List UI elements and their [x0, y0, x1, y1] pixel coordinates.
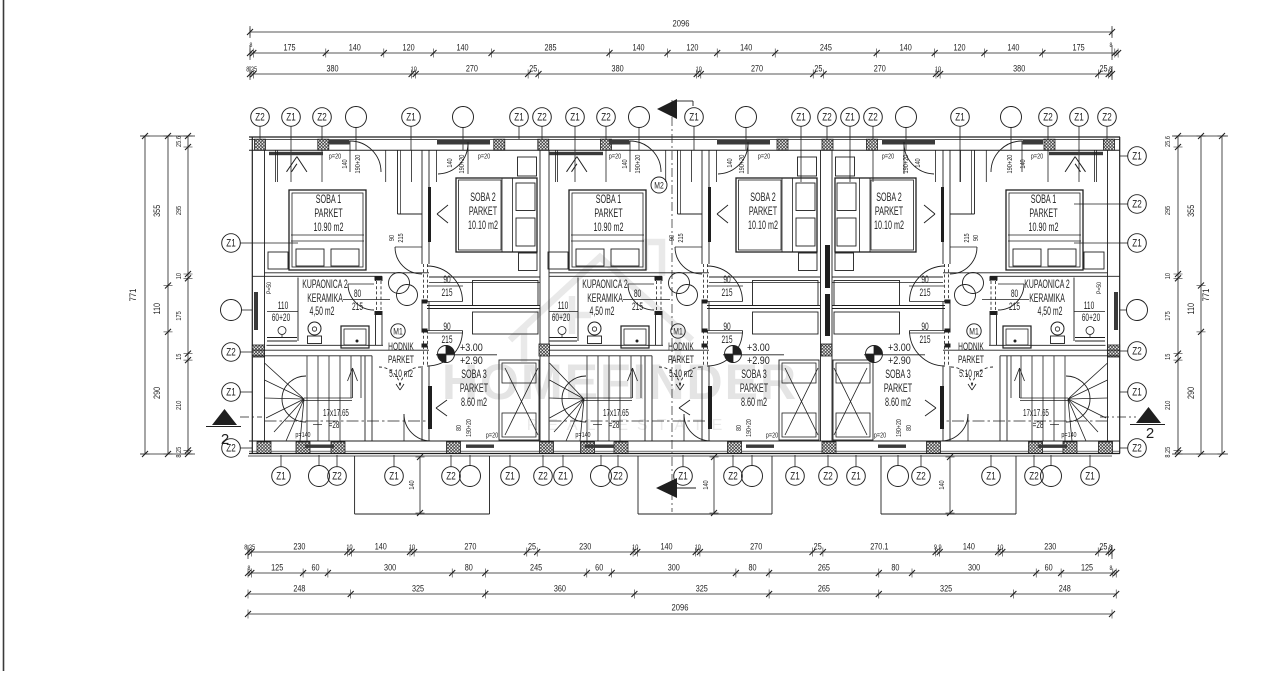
svg-text:215: 215 [352, 300, 363, 312]
svg-text:140: 140 [740, 42, 752, 53]
svg-text:p=140: p=140 [575, 431, 590, 439]
svg-text:+3.00: +3.00 [747, 342, 770, 354]
svg-text:265: 265 [818, 583, 830, 594]
svg-text:Z1: Z1 [1132, 238, 1141, 250]
svg-text:5.10 m2: 5.10 m2 [389, 367, 413, 379]
svg-text:140: 140 [456, 42, 468, 53]
svg-text:140: 140 [660, 541, 672, 552]
svg-text:190+20: 190+20 [354, 154, 362, 173]
svg-text:215: 215 [441, 333, 452, 345]
svg-text:PARKET: PARKET [875, 205, 903, 218]
svg-text:290: 290 [1185, 387, 1196, 399]
svg-text:175: 175 [1073, 42, 1085, 53]
svg-text:120: 120 [953, 42, 965, 53]
svg-text:KUPAONICA 2: KUPAONICA 2 [582, 278, 627, 291]
svg-text:Z1: Z1 [1074, 112, 1083, 124]
svg-text:15: 15 [175, 353, 183, 360]
svg-text:300: 300 [968, 562, 980, 573]
svg-text:PARKET: PARKET [668, 353, 694, 365]
svg-text:90: 90 [723, 273, 730, 285]
svg-text:110: 110 [151, 303, 162, 315]
svg-text:325: 325 [696, 583, 708, 594]
svg-text:Z2: Z2 [823, 471, 832, 483]
svg-text:110: 110 [558, 299, 569, 311]
svg-text:80: 80 [455, 425, 463, 431]
svg-text:PARKET: PARKET [884, 382, 912, 395]
svg-text:5.10 m2: 5.10 m2 [669, 367, 693, 379]
svg-text:360: 360 [554, 583, 566, 594]
svg-text:380: 380 [612, 63, 624, 74]
svg-text:Z2: Z2 [1132, 346, 1141, 358]
svg-text:10.10 m2: 10.10 m2 [468, 219, 498, 232]
svg-text:295: 295 [175, 205, 183, 215]
svg-text:+2.90: +2.90 [747, 355, 770, 367]
svg-text:215: 215 [721, 333, 732, 345]
svg-text:P=50: P=50 [266, 281, 273, 294]
svg-text:80: 80 [354, 287, 361, 299]
svg-text:80: 80 [735, 425, 743, 431]
svg-text:140: 140 [726, 158, 734, 168]
svg-text:120: 120 [403, 42, 415, 53]
svg-text:25.6: 25.6 [175, 136, 183, 147]
svg-text:SOBA 3: SOBA 3 [741, 368, 767, 381]
svg-text:9.9: 9.9 [934, 544, 942, 552]
svg-text:5.10 m2: 5.10 m2 [959, 367, 983, 379]
svg-text:10: 10 [409, 544, 416, 552]
svg-text:10: 10 [411, 66, 418, 74]
svg-text:90: 90 [443, 273, 450, 285]
svg-text:210: 210 [175, 400, 183, 410]
svg-text:325: 325 [940, 583, 952, 594]
svg-text:10: 10 [997, 544, 1004, 552]
svg-text:265: 265 [818, 562, 830, 573]
svg-text:8.25: 8.25 [246, 66, 257, 74]
svg-text:245: 245 [820, 42, 832, 53]
svg-text:60: 60 [311, 562, 319, 573]
svg-text:270: 270 [750, 541, 762, 552]
svg-text:8.25: 8.25 [244, 544, 255, 552]
svg-text:4,50 m2: 4,50 m2 [310, 305, 335, 318]
svg-text:Z2: Z2 [822, 112, 831, 124]
svg-text:2: 2 [1146, 425, 1154, 442]
svg-text:210: 210 [1164, 400, 1172, 410]
svg-text:10.90 m2: 10.90 m2 [1029, 221, 1059, 234]
svg-text:Z2: Z2 [538, 471, 547, 483]
svg-text:140: 140 [702, 480, 710, 490]
svg-text:120: 120 [686, 42, 698, 53]
svg-text:215: 215 [1009, 300, 1020, 312]
svg-text:80: 80 [634, 287, 641, 299]
svg-text:Z1: Z1 [986, 471, 995, 483]
svg-text:Z2: Z2 [446, 471, 455, 483]
svg-text:KUPAONICA 2: KUPAONICA 2 [302, 278, 347, 291]
svg-text:190+20: 190+20 [745, 419, 753, 437]
svg-text:175: 175 [175, 311, 183, 321]
svg-text:190+20: 190+20 [738, 154, 746, 173]
svg-text:Z2: Z2 [1043, 112, 1052, 124]
svg-text:248: 248 [293, 583, 305, 594]
svg-text:25: 25 [529, 63, 537, 74]
svg-text:125: 125 [271, 562, 283, 573]
svg-text:140: 140 [900, 42, 912, 53]
svg-text:Z2: Z2 [1132, 443, 1141, 455]
svg-text:285: 285 [544, 42, 556, 53]
svg-text:25.6: 25.6 [1164, 136, 1172, 147]
svg-text:190+20: 190+20 [634, 154, 642, 173]
svg-text:140: 140 [408, 480, 416, 490]
svg-text:270: 270 [464, 541, 476, 552]
svg-text:230: 230 [579, 541, 591, 552]
svg-text:140: 140 [446, 158, 454, 168]
svg-text:+3.00: +3.00 [888, 342, 911, 354]
svg-text:Z1: Z1 [678, 471, 687, 483]
svg-text:2: 2 [221, 431, 229, 448]
svg-text:SOBA 2: SOBA 2 [876, 191, 902, 204]
svg-text:2096: 2096 [673, 18, 690, 29]
svg-text:Z2: Z2 [1132, 199, 1141, 211]
svg-text:140: 140 [914, 158, 922, 168]
svg-text:90: 90 [921, 320, 928, 332]
svg-text:215: 215 [919, 333, 930, 345]
svg-text:Z1: Z1 [1132, 387, 1141, 399]
svg-text:PARKET: PARKET [594, 207, 622, 220]
svg-text:270: 270 [751, 63, 763, 74]
svg-text:SOBA 1: SOBA 1 [316, 193, 342, 206]
svg-text:P=50: P=50 [1096, 281, 1103, 294]
svg-text:Z2: Z2 [613, 471, 622, 483]
svg-text:SOBA 1: SOBA 1 [1031, 193, 1057, 206]
svg-text:25: 25 [814, 541, 822, 552]
svg-text:p=20: p=20 [609, 153, 621, 161]
svg-text:125: 125 [1081, 562, 1093, 573]
svg-text:PARKET: PARKET [1029, 207, 1057, 220]
svg-text:295: 295 [1164, 205, 1172, 215]
svg-text:190+20: 190+20 [895, 419, 903, 437]
svg-text:10.10 m2: 10.10 m2 [748, 219, 778, 232]
svg-text:140: 140 [341, 159, 349, 169]
svg-text:Z1: Z1 [1085, 471, 1094, 483]
svg-text:Z2: Z2 [332, 471, 341, 483]
svg-text:M1: M1 [393, 326, 403, 336]
svg-text:10: 10 [632, 544, 639, 552]
svg-text:p=20: p=20 [486, 432, 498, 440]
svg-text:8.25: 8.25 [1164, 446, 1172, 457]
svg-text:PARKET: PARKET [740, 382, 768, 395]
svg-text:Z1: Z1 [845, 112, 854, 124]
svg-text:270: 270 [874, 63, 886, 74]
svg-text:355: 355 [151, 204, 162, 216]
svg-text:2096: 2096 [672, 602, 689, 613]
svg-text:Z2: Z2 [537, 112, 546, 124]
svg-text:REAL ESTATE: REAL ESTATE [527, 417, 732, 434]
svg-text:17x17.65: 17x17.65 [1023, 406, 1049, 418]
svg-text:215: 215 [677, 233, 685, 243]
svg-text:Z1: Z1 [514, 112, 523, 124]
svg-text:90: 90 [388, 235, 396, 242]
svg-text:PARKET: PARKET [460, 382, 488, 395]
svg-text:300: 300 [668, 562, 680, 573]
svg-text:4,50 m2: 4,50 m2 [1038, 305, 1063, 318]
svg-text:8.60 m2: 8.60 m2 [461, 396, 487, 409]
svg-text:Z2: Z2 [255, 112, 264, 124]
svg-text:10.10 m2: 10.10 m2 [874, 219, 904, 232]
svg-text:p=20: p=20 [478, 153, 490, 161]
svg-text:80: 80 [891, 562, 899, 573]
svg-text:8.60 m2: 8.60 m2 [885, 396, 911, 409]
svg-text:270.1: 270.1 [870, 541, 888, 552]
svg-text:Z2: Z2 [728, 471, 737, 483]
svg-text:215: 215 [632, 300, 643, 312]
svg-text:8.60 m2: 8.60 m2 [741, 396, 767, 409]
svg-text:+3.00: +3.00 [460, 342, 483, 354]
svg-text:80: 80 [905, 425, 913, 431]
svg-text:PARKET: PARKET [958, 353, 984, 365]
svg-text:215: 215 [397, 233, 405, 243]
svg-text:KERAMIKA: KERAMIKA [587, 292, 623, 305]
svg-text:10: 10 [935, 66, 942, 74]
svg-text:190+20: 190+20 [458, 154, 466, 173]
svg-text:25: 25 [1099, 541, 1107, 552]
svg-text:60+20: 60+20 [272, 311, 291, 323]
svg-text:10: 10 [695, 544, 702, 552]
svg-text:190+20: 190+20 [465, 419, 473, 437]
svg-text:PARKET: PARKET [314, 207, 342, 220]
svg-text:p=20: p=20 [874, 432, 886, 440]
svg-text:p=20: p=20 [766, 432, 778, 440]
svg-text:p=20: p=20 [1031, 153, 1043, 161]
svg-text:175: 175 [283, 42, 295, 53]
svg-text:25: 25 [1099, 63, 1107, 74]
svg-text:771: 771 [1200, 288, 1211, 301]
svg-text:140: 140 [963, 541, 975, 552]
svg-text:M1: M1 [673, 326, 683, 336]
svg-text:p=20: p=20 [329, 153, 341, 161]
svg-text:Z1: Z1 [226, 238, 235, 250]
svg-text:Z2: Z2 [317, 112, 326, 124]
svg-text:Z1: Z1 [276, 471, 285, 483]
svg-text:355: 355 [1185, 204, 1196, 216]
svg-text:140: 140 [1019, 159, 1027, 169]
svg-text:M1: M1 [969, 326, 979, 336]
svg-text:80: 80 [748, 562, 756, 573]
svg-text:KUPAONICA 2: KUPAONICA 2 [1024, 278, 1069, 291]
svg-text:380: 380 [326, 63, 338, 74]
svg-text:215: 215 [963, 233, 971, 243]
svg-text:SOBA 1: SOBA 1 [596, 193, 622, 206]
svg-text:270: 270 [466, 63, 478, 74]
svg-text:230: 230 [1044, 541, 1056, 552]
svg-text:4,50 m2: 4,50 m2 [590, 305, 615, 318]
svg-text:Z1: Z1 [689, 112, 698, 124]
svg-text:245: 245 [530, 562, 542, 573]
svg-text:Z2: Z2 [226, 347, 235, 359]
svg-text:215: 215 [721, 286, 732, 298]
svg-text:SOBA 3: SOBA 3 [885, 368, 911, 381]
svg-text:Z1: Z1 [796, 112, 805, 124]
svg-text:Z1: Z1 [1132, 151, 1141, 163]
svg-text:Z1: Z1 [955, 112, 964, 124]
svg-text:290: 290 [151, 387, 162, 399]
svg-text:215: 215 [441, 286, 452, 298]
svg-text:60+20: 60+20 [1082, 311, 1101, 323]
svg-text:190+20: 190+20 [1006, 154, 1014, 173]
svg-text:190+20: 190+20 [902, 154, 910, 173]
svg-text:90: 90 [668, 235, 676, 242]
svg-text:60: 60 [595, 562, 603, 573]
svg-text:Z1: Z1 [558, 471, 567, 483]
svg-text:Z1: Z1 [570, 112, 579, 124]
svg-text:Z1: Z1 [286, 112, 295, 124]
svg-text:80: 80 [465, 562, 473, 573]
svg-text:25: 25 [814, 63, 822, 74]
svg-text:Z2: Z2 [916, 471, 925, 483]
svg-text:10: 10 [1164, 273, 1172, 280]
svg-text:140: 140 [632, 42, 644, 53]
svg-text:HODNIK: HODNIK [388, 340, 414, 352]
svg-text:17x17.65: 17x17.65 [603, 406, 629, 418]
svg-text:p=20: p=20 [882, 153, 894, 161]
svg-text:Z2: Z2 [868, 112, 877, 124]
svg-text:10: 10 [346, 544, 353, 552]
svg-text:90: 90 [723, 320, 730, 332]
svg-text:Z1: Z1 [790, 471, 799, 483]
svg-text:300: 300 [384, 562, 396, 573]
svg-text:Z1: Z1 [226, 387, 235, 399]
svg-text:10.90 m2: 10.90 m2 [594, 221, 624, 234]
svg-text:SOBA 2: SOBA 2 [470, 191, 496, 204]
svg-text:15: 15 [1164, 353, 1172, 360]
svg-text:KERAMIKA: KERAMIKA [307, 292, 343, 305]
svg-text:KERAMIKA: KERAMIKA [1029, 292, 1065, 305]
svg-text:Z2: Z2 [1102, 112, 1111, 124]
svg-text:PARKET: PARKET [469, 205, 497, 218]
svg-text:p=20: p=20 [758, 153, 770, 161]
svg-text:Z1: Z1 [389, 471, 398, 483]
svg-text:Z1: Z1 [406, 112, 415, 124]
svg-text:175: 175 [1164, 311, 1172, 321]
svg-text:Z2: Z2 [601, 112, 610, 124]
svg-text:Z2: Z2 [1029, 471, 1038, 483]
svg-text:140: 140 [1007, 42, 1019, 53]
svg-text:140: 140 [349, 42, 361, 53]
svg-text:90: 90 [443, 320, 450, 332]
svg-text:Z1: Z1 [851, 471, 860, 483]
svg-text:=28: =28 [329, 418, 340, 430]
svg-text:17x17.65: 17x17.65 [323, 406, 349, 418]
svg-text:HODNIK: HODNIK [668, 340, 694, 352]
svg-text:PARKET: PARKET [749, 205, 777, 218]
svg-text:PARKET: PARKET [388, 353, 414, 365]
svg-text:60+20: 60+20 [552, 311, 571, 323]
svg-text:80: 80 [1011, 287, 1018, 299]
svg-text:10.90 m2: 10.90 m2 [314, 221, 344, 234]
svg-text:=28: =28 [609, 418, 620, 430]
svg-text:p=140: p=140 [1061, 431, 1076, 439]
svg-text:110: 110 [278, 299, 289, 311]
svg-text:325: 325 [412, 583, 424, 594]
svg-text:25: 25 [528, 541, 536, 552]
svg-text:SOBA 2: SOBA 2 [750, 191, 776, 204]
svg-text:=28: =28 [1033, 418, 1044, 430]
svg-text:110: 110 [1185, 303, 1196, 315]
svg-text:140: 140 [375, 541, 387, 552]
svg-text:SOBA 3: SOBA 3 [461, 368, 487, 381]
svg-text:60: 60 [1045, 562, 1053, 573]
svg-text:215: 215 [919, 286, 930, 298]
svg-text:771: 771 [127, 288, 138, 301]
svg-text:140: 140 [938, 480, 946, 490]
svg-text:248: 248 [1059, 583, 1071, 594]
svg-text:p=140: p=140 [295, 431, 310, 439]
svg-text:90: 90 [972, 235, 980, 242]
svg-text:380: 380 [1013, 63, 1025, 74]
svg-text:230: 230 [293, 541, 305, 552]
svg-text:HODNIK: HODNIK [958, 340, 984, 352]
svg-text:110: 110 [1084, 299, 1095, 311]
svg-text:+2.90: +2.90 [460, 355, 483, 367]
svg-text:M2: M2 [654, 180, 664, 190]
svg-text:+2.90: +2.90 [888, 355, 911, 367]
svg-text:Z1: Z1 [505, 471, 514, 483]
svg-text:140: 140 [621, 159, 629, 169]
svg-text:8.25: 8.25 [175, 446, 183, 457]
svg-text:10: 10 [175, 273, 183, 280]
svg-text:90: 90 [921, 273, 928, 285]
svg-text:10: 10 [696, 66, 703, 74]
